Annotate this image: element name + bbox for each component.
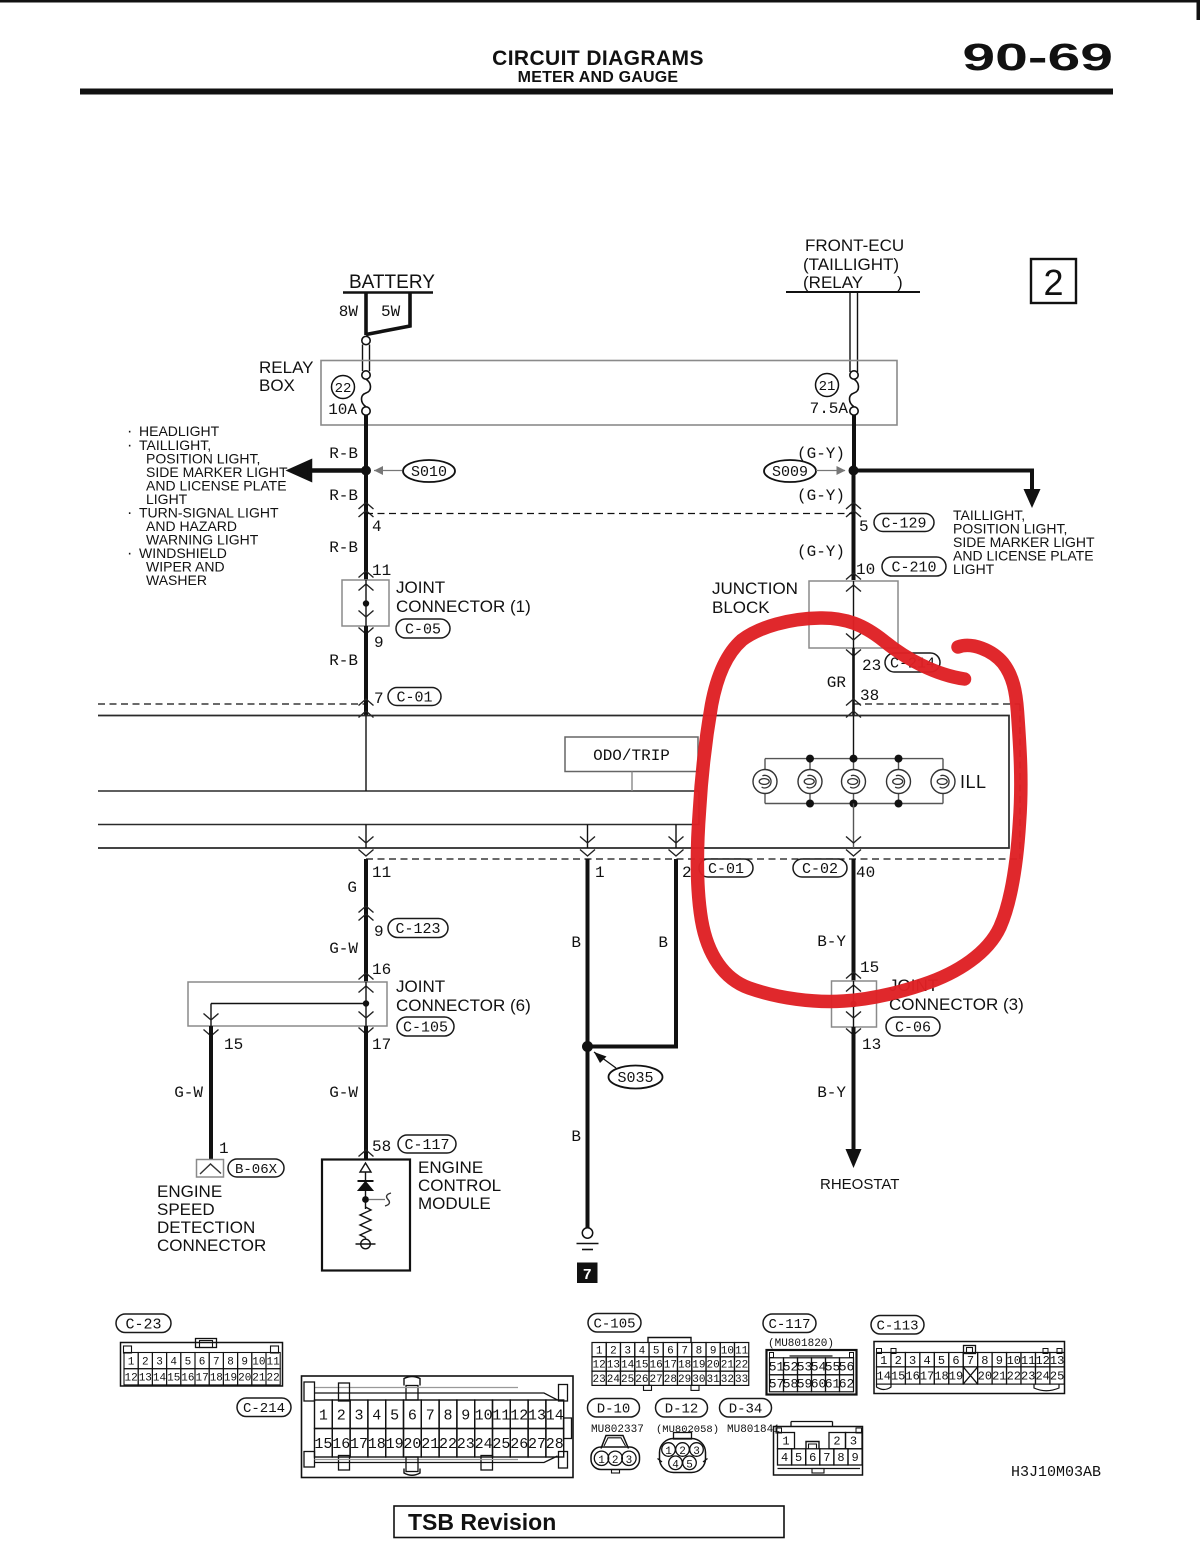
chevron into junction block <box>846 573 861 580</box>
svg-text:2: 2 <box>895 1354 902 1368</box>
odo/trip display box <box>565 737 698 772</box>
svg-text:15: 15 <box>635 1360 648 1372</box>
svg-text:27: 27 <box>528 1436 546 1453</box>
svg-text:3: 3 <box>354 1407 363 1424</box>
svg-text:1: 1 <box>665 1446 672 1458</box>
svg-text:25: 25 <box>621 1374 634 1386</box>
connector C-214 label <box>237 1398 291 1417</box>
svg-text:3: 3 <box>693 1446 700 1458</box>
svg-text:6: 6 <box>199 1356 206 1368</box>
svg-text:(RELAY: (RELAY <box>803 273 863 292</box>
svg-text:18: 18 <box>210 1373 223 1385</box>
connector C-117 pinout <box>767 1350 857 1395</box>
junction block internal wire <box>853 581 855 648</box>
illumination lamp 3 <box>853 759 855 770</box>
svg-text:18: 18 <box>368 1436 386 1453</box>
svg-text:FRONT-ECU: FRONT-ECU <box>805 236 904 255</box>
svg-text:11: 11 <box>735 1345 749 1357</box>
svg-text:14: 14 <box>546 1407 564 1424</box>
svg-text:1: 1 <box>598 1455 605 1467</box>
page-break chevrons pin 9 C-123 <box>359 906 374 913</box>
svg-text:C-113: C-113 <box>876 1319 918 1335</box>
svg-text:21: 21 <box>721 1360 735 1372</box>
svg-text:C-23: C-23 <box>125 1316 161 1333</box>
svg-text:19: 19 <box>224 1373 237 1385</box>
rheostat arrow <box>846 1149 862 1168</box>
svg-text:BOX: BOX <box>259 376 295 395</box>
svg-text:11: 11 <box>266 1356 280 1368</box>
connector C-214 pinout <box>302 1376 574 1478</box>
battery 8W feed wire <box>364 293 368 336</box>
front-ecu terminal bar <box>786 291 920 293</box>
front-ecu feed double line <box>849 292 851 372</box>
svg-text:9: 9 <box>241 1356 248 1368</box>
svg-text:24: 24 <box>475 1436 493 1453</box>
svg-text:7: 7 <box>426 1407 435 1424</box>
svg-text:2: 2 <box>833 1435 840 1449</box>
wire G-W to engine speed detection connector <box>209 1026 213 1160</box>
connector D-12 pinout <box>674 1433 692 1440</box>
svg-text:19: 19 <box>386 1436 404 1453</box>
svg-text:RHEOSTAT: RHEOSTAT <box>820 1176 899 1193</box>
odo/trip stem <box>631 772 633 792</box>
svg-text:12: 12 <box>593 1360 606 1372</box>
joint connector 1 wire inside <box>365 580 367 626</box>
svg-text:ILL: ILL <box>960 772 987 792</box>
svg-text:D-10: D-10 <box>597 1402 631 1418</box>
connector C-105 pinout <box>648 1338 691 1343</box>
svg-text:BATTERY: BATTERY <box>349 272 435 293</box>
svg-text:1: 1 <box>319 1407 328 1424</box>
meter wire pin1 out <box>587 825 589 849</box>
svg-text:G-W: G-W <box>174 1084 203 1102</box>
svg-text:5W: 5W <box>381 303 401 321</box>
wire R-B S010 to page break <box>364 471 368 514</box>
wire B pin2 down and elbow to S035 <box>588 859 677 1047</box>
svg-text:3: 3 <box>850 1435 857 1449</box>
svg-text:10: 10 <box>252 1356 265 1368</box>
wire to taillight circuits with arrow <box>854 471 1033 497</box>
connector C-105 label <box>397 1017 454 1036</box>
svg-text:16: 16 <box>181 1373 194 1385</box>
connector D-10 label <box>588 1399 640 1418</box>
wire G-Y S009 down <box>852 471 856 514</box>
svg-text:56: 56 <box>839 1360 855 1375</box>
wire GR junction block to meter <box>852 648 855 715</box>
svg-text:CONNECTOR (6): CONNECTOR (6) <box>396 996 531 1015</box>
svg-text:1: 1 <box>128 1356 135 1368</box>
svg-text:4: 4 <box>372 518 382 536</box>
svg-text:15: 15 <box>860 959 879 977</box>
svg-text:2: 2 <box>682 864 692 882</box>
red marker circle annotation <box>697 618 1020 1001</box>
meter connector dashed line top-right <box>854 703 1021 705</box>
svg-text:33: 33 <box>735 1374 748 1386</box>
svg-text:5: 5 <box>185 1356 192 1368</box>
svg-text:7: 7 <box>583 1267 592 1284</box>
svg-text:JOINT: JOINT <box>396 578 445 597</box>
svg-text:TSB Revision: TSB Revision <box>408 1509 556 1535</box>
wire R-B fuse22 to S010 junction <box>364 415 368 471</box>
illumination lamp 5 <box>942 759 944 770</box>
svg-text:21: 21 <box>819 379 836 395</box>
svg-text:7: 7 <box>681 1345 688 1357</box>
svg-text:8: 8 <box>443 1407 452 1424</box>
splice S035 callout <box>609 1066 663 1089</box>
svg-text:22: 22 <box>735 1360 748 1372</box>
figure number box 2 <box>1031 259 1076 303</box>
node S010 junction dot <box>361 466 371 476</box>
svg-text:R-B: R-B <box>329 539 358 557</box>
svg-text:23: 23 <box>457 1436 475 1453</box>
connector D-34 label <box>720 1399 772 1418</box>
joint connector 6 internal wires <box>365 982 367 1026</box>
ground symbol <box>582 1228 592 1238</box>
ECM branch curl <box>369 1199 385 1201</box>
connector C-23 pinout <box>121 1343 283 1387</box>
svg-text:3: 3 <box>156 1356 163 1368</box>
svg-text:25: 25 <box>1050 1370 1064 1384</box>
wire R-B to joint connector 1 <box>364 514 368 581</box>
node S009 junction dot <box>849 466 859 476</box>
svg-text:22: 22 <box>335 381 352 397</box>
ECM internal node dot <box>362 1196 369 1203</box>
page corner tick top-right <box>1197 0 1200 20</box>
connector C-05 label <box>396 619 450 638</box>
svg-text:C-01: C-01 <box>396 690 432 707</box>
lamp rail junction dots <box>806 755 814 763</box>
svg-text:13: 13 <box>1050 1354 1064 1368</box>
svg-text:C-06: C-06 <box>895 1020 931 1037</box>
junction block box <box>809 581 898 648</box>
svg-text:15: 15 <box>891 1370 905 1384</box>
wire R-B joint connector 1 to C-01 <box>364 626 368 715</box>
battery terminal bar <box>343 291 433 293</box>
svg-text:GR: GR <box>827 674 847 692</box>
svg-text:13: 13 <box>862 1036 881 1054</box>
svg-text:G-W: G-W <box>329 1084 358 1102</box>
wire B S035 to ground <box>586 1047 590 1228</box>
svg-text:C-210: C-210 <box>891 560 936 577</box>
svg-text:R-B: R-B <box>329 652 358 670</box>
svg-text:6: 6 <box>952 1354 959 1368</box>
svg-text:5: 5 <box>795 1451 802 1465</box>
svg-text:C-117: C-117 <box>768 1317 810 1333</box>
joint connector 1 box <box>342 580 389 626</box>
page-break chevrons pin 5 C-129 <box>846 503 861 510</box>
svg-text:CONNECTOR (3): CONNECTOR (3) <box>889 995 1024 1014</box>
svg-text:9: 9 <box>374 923 384 941</box>
svg-text:15: 15 <box>224 1036 243 1054</box>
svg-text:5: 5 <box>859 518 869 536</box>
wire B-Y meter to joint connector 3 <box>852 859 856 981</box>
svg-text:H3J10M03AB: H3J10M03AB <box>1011 1464 1101 1481</box>
wire G-Y fuse21 to S009 junction <box>852 415 856 471</box>
svg-text:16: 16 <box>332 1436 350 1453</box>
fuse 22 10A <box>362 371 370 379</box>
svg-text:2: 2 <box>337 1407 346 1424</box>
svg-text:1: 1 <box>596 1345 603 1357</box>
illumination lamp 1 <box>764 759 766 770</box>
svg-text:8: 8 <box>981 1354 988 1368</box>
svg-text:JOINT: JOINT <box>396 977 445 996</box>
svg-text:7.5A: 7.5A <box>810 400 849 418</box>
svg-text:20: 20 <box>707 1360 720 1372</box>
joint connector 3 dot <box>850 1001 856 1007</box>
svg-text:30: 30 <box>692 1374 705 1386</box>
svg-text:12: 12 <box>124 1373 137 1385</box>
svg-text:MU801841: MU801841 <box>727 1424 780 1436</box>
svg-text:C-01: C-01 <box>708 861 744 878</box>
svg-text:19: 19 <box>949 1370 963 1384</box>
svg-text:6: 6 <box>408 1407 417 1424</box>
svg-text:28: 28 <box>664 1374 677 1386</box>
svg-text:2: 2 <box>142 1356 149 1368</box>
joint connector 3 box <box>832 981 877 1027</box>
svg-text:G-W: G-W <box>329 940 358 958</box>
svg-text:WASHER: WASHER <box>146 572 207 588</box>
svg-text:16: 16 <box>650 1360 663 1372</box>
illumination lamp 2 <box>809 759 811 770</box>
splice S010 callout <box>374 470 402 472</box>
svg-text:40: 40 <box>856 864 875 882</box>
svg-text:8: 8 <box>837 1451 844 1465</box>
svg-text:1: 1 <box>595 864 605 882</box>
meter connector dashed right edge <box>1019 704 1021 859</box>
svg-text:18: 18 <box>678 1360 691 1372</box>
svg-text:SPEED: SPEED <box>157 1200 215 1219</box>
wire G-Y to junction block <box>852 514 856 581</box>
svg-text:): ) <box>897 273 903 292</box>
wire G-W to joint connector 6 <box>364 918 368 982</box>
svg-text:(MU802058): (MU802058) <box>656 1424 719 1436</box>
svg-text:7: 7 <box>213 1356 220 1368</box>
svg-text:5: 5 <box>686 1460 693 1472</box>
svg-text:3: 3 <box>909 1354 916 1368</box>
svg-text:·: · <box>127 437 132 454</box>
svg-text:·: · <box>127 505 132 522</box>
svg-text:C-117: C-117 <box>404 1137 449 1154</box>
svg-text:26: 26 <box>510 1436 528 1453</box>
svg-text:1: 1 <box>219 1140 229 1158</box>
svg-text:12: 12 <box>1035 1354 1049 1368</box>
svg-text:28: 28 <box>546 1436 564 1453</box>
svg-text:CONNECTOR (1): CONNECTOR (1) <box>396 597 531 616</box>
battery terminal circle <box>362 336 370 344</box>
svg-text:5: 5 <box>390 1407 399 1424</box>
svg-text:(G-Y): (G-Y) <box>797 487 845 505</box>
svg-text:8: 8 <box>696 1345 703 1357</box>
svg-text:25: 25 <box>492 1436 510 1453</box>
joint connector 6 dot <box>363 1000 369 1006</box>
connector D-10 pinout <box>601 1436 629 1449</box>
page break dashed line upper <box>366 513 854 515</box>
svg-text:METER AND GAUGE: METER AND GAUGE <box>518 69 679 86</box>
svg-text:C-123: C-123 <box>395 921 440 938</box>
svg-text:CIRCUIT DIAGRAMS: CIRCUIT DIAGRAMS <box>492 47 704 70</box>
svg-text:7: 7 <box>967 1354 974 1368</box>
svg-text:11: 11 <box>492 1407 510 1424</box>
svg-text:24: 24 <box>1035 1370 1049 1384</box>
svg-text:16: 16 <box>372 961 391 979</box>
svg-text:10: 10 <box>475 1407 493 1424</box>
svg-text:C-105: C-105 <box>593 1317 635 1333</box>
svg-text:23: 23 <box>593 1374 606 1386</box>
svg-text:2: 2 <box>1043 262 1063 303</box>
svg-text:C-129: C-129 <box>881 516 926 533</box>
svg-text:MODULE: MODULE <box>418 1194 491 1213</box>
svg-text:16: 16 <box>905 1370 919 1384</box>
svg-text:RELAY: RELAY <box>259 358 314 377</box>
meter connector dashed line bottom <box>366 858 1020 860</box>
svg-text:8W: 8W <box>339 303 359 321</box>
wire B-Y to rheostat <box>852 1027 856 1151</box>
svg-text:10A: 10A <box>328 401 357 419</box>
svg-text:4: 4 <box>170 1356 177 1368</box>
page number 90-69 <box>962 35 1113 78</box>
svg-text:20: 20 <box>403 1436 421 1453</box>
svg-text:58: 58 <box>372 1138 391 1156</box>
connector D-34 pinout <box>774 1427 863 1476</box>
svg-text:4: 4 <box>781 1451 788 1465</box>
svg-text:11: 11 <box>1021 1354 1035 1368</box>
connector C-105 pinout label <box>588 1314 641 1333</box>
svg-text:9: 9 <box>851 1451 858 1465</box>
svg-text:MU802337: MU802337 <box>591 1424 644 1436</box>
svg-text:C-02: C-02 <box>802 861 838 878</box>
lamp feed wire from pin 38 <box>853 716 855 759</box>
joint connector 6 box <box>188 982 387 1026</box>
svg-text:13: 13 <box>607 1360 620 1372</box>
svg-text:1: 1 <box>880 1354 887 1368</box>
connector D-12 label <box>656 1399 708 1418</box>
svg-text:B: B <box>571 934 581 952</box>
svg-text:17: 17 <box>664 1360 677 1372</box>
svg-text:4: 4 <box>372 1407 381 1424</box>
ground reference 7 box <box>577 1263 598 1284</box>
fuse 21 7.5A <box>850 371 858 379</box>
meter wire from C-01 pin7 down <box>365 716 367 792</box>
svg-text:D-34: D-34 <box>729 1402 763 1418</box>
fusible link double line <box>362 345 364 372</box>
svg-text:ENGINE: ENGINE <box>157 1182 222 1201</box>
svg-text:21: 21 <box>992 1370 1006 1384</box>
meter wire pin11 out <box>365 825 367 849</box>
svg-text:(G-Y): (G-Y) <box>797 543 845 561</box>
svg-text:17: 17 <box>195 1373 208 1385</box>
svg-text:21: 21 <box>421 1436 439 1453</box>
svg-text:23: 23 <box>1021 1370 1035 1384</box>
svg-text:ENGINE: ENGINE <box>418 1158 483 1177</box>
svg-text:11: 11 <box>372 864 391 882</box>
page-break chevrons pin 4 <box>359 503 374 510</box>
svg-text:14: 14 <box>877 1370 891 1384</box>
svg-text:15: 15 <box>314 1436 332 1453</box>
svg-text:5: 5 <box>653 1345 660 1357</box>
svg-text:13: 13 <box>139 1373 152 1385</box>
svg-text:R-B: R-B <box>329 445 358 463</box>
svg-text:3: 3 <box>626 1455 633 1467</box>
svg-text:9: 9 <box>996 1354 1003 1368</box>
svg-text:3: 3 <box>624 1345 631 1357</box>
svg-text:(MU801820): (MU801820) <box>768 1338 834 1350</box>
svg-text:5: 5 <box>938 1354 945 1368</box>
svg-text:29: 29 <box>678 1374 691 1386</box>
svg-text:62: 62 <box>839 1377 855 1392</box>
svg-text:7: 7 <box>374 690 384 708</box>
svg-text:27: 27 <box>650 1374 663 1386</box>
ECM zener diode <box>360 1163 371 1172</box>
svg-text:C-105: C-105 <box>403 1020 448 1037</box>
fuse 21 number circle <box>816 374 839 397</box>
svg-text:D-12: D-12 <box>665 1402 699 1418</box>
chevrons into meter pin 38 <box>846 699 861 706</box>
svg-text:12: 12 <box>510 1407 528 1424</box>
svg-text:10: 10 <box>1007 1354 1021 1368</box>
svg-text:CONNECTOR: CONNECTOR <box>157 1236 266 1255</box>
svg-text:20: 20 <box>238 1373 251 1385</box>
svg-text:17: 17 <box>372 1036 391 1054</box>
svg-text:10: 10 <box>856 561 875 579</box>
svg-text:C-214: C-214 <box>243 1401 285 1417</box>
svg-text:B: B <box>571 1128 581 1146</box>
svg-text:S035: S035 <box>617 1070 653 1087</box>
connector B-06X box <box>197 1160 224 1178</box>
svg-text:15: 15 <box>167 1373 180 1385</box>
svg-text:(G-Y): (G-Y) <box>797 445 845 463</box>
lamp return wire to pin 40 <box>853 804 855 849</box>
svg-text:BLOCK: BLOCK <box>712 598 770 617</box>
svg-text:9: 9 <box>461 1407 470 1424</box>
svg-text:JUNCTION: JUNCTION <box>712 579 798 598</box>
svg-text:2: 2 <box>679 1446 686 1458</box>
svg-text:13: 13 <box>528 1407 546 1424</box>
svg-text:G: G <box>347 879 357 897</box>
connector C-02 label <box>793 859 847 877</box>
connector B-06X label <box>228 1159 284 1177</box>
engine control module box <box>322 1160 410 1271</box>
svg-text:7: 7 <box>823 1451 830 1465</box>
svg-text:LIGHT: LIGHT <box>953 561 995 577</box>
svg-text:B-Y: B-Y <box>817 933 846 951</box>
svg-text:17: 17 <box>350 1436 368 1453</box>
svg-text:B: B <box>658 934 668 952</box>
wire G-W joint connector 6 to ECM <box>364 1026 368 1160</box>
svg-text:26: 26 <box>635 1374 648 1386</box>
connector C-113 pinout <box>874 1342 1065 1394</box>
svg-text:9: 9 <box>374 634 384 652</box>
illumination lamp rails <box>765 758 943 760</box>
svg-text:17: 17 <box>920 1370 934 1384</box>
svg-text:31: 31 <box>707 1374 721 1386</box>
svg-text:R-B: R-B <box>329 487 358 505</box>
TSB revision box <box>394 1506 784 1538</box>
svg-text:38: 38 <box>860 687 879 705</box>
wire G meter to C-123 <box>364 859 368 918</box>
svg-text:9: 9 <box>710 1345 717 1357</box>
meter assembly box <box>98 716 1009 849</box>
connector C-23 label <box>116 1314 171 1333</box>
svg-text:19: 19 <box>692 1360 705 1372</box>
splice S009 callout <box>764 460 816 482</box>
svg-text:20: 20 <box>978 1370 992 1384</box>
svg-text:14: 14 <box>153 1373 167 1385</box>
svg-text:6: 6 <box>667 1345 674 1357</box>
svg-text:C-05: C-05 <box>405 622 441 639</box>
svg-text:6: 6 <box>809 1451 816 1465</box>
svg-text:CONTROL: CONTROL <box>418 1176 501 1195</box>
ECM internal supply circle <box>365 1238 367 1240</box>
